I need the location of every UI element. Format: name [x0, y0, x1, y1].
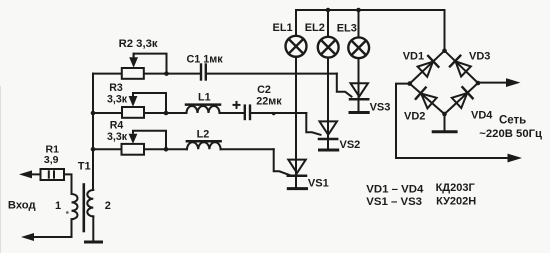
svg-text:L1: L1	[198, 91, 211, 103]
transformer T1 secondary winding	[87, 190, 93, 216]
svg-text:VS3: VS3	[370, 102, 391, 114]
resistor R3	[122, 107, 144, 118]
wire bridge bottom to ground	[444, 114, 446, 131]
svg-text:C1 1мк: C1 1мк	[187, 54, 224, 66]
node bridge right	[476, 81, 481, 86]
svg-text:VS2: VS2	[340, 139, 361, 151]
diode bridge wires	[410, 51, 478, 114]
diode VD2	[416, 88, 437, 109]
svg-text:1: 1	[55, 200, 61, 212]
svg-text:Сеть: Сеть	[499, 115, 526, 127]
node R3 right	[164, 111, 169, 116]
svg-text:R2 3,3к: R2 3,3к	[119, 38, 158, 50]
wire EL3 lead	[358, 10, 360, 38]
wire R3 wiper loop	[133, 93, 166, 113]
inductor L1	[186, 105, 220, 113]
svg-text:VD1: VD1	[403, 51, 424, 63]
node R4 right	[164, 147, 169, 152]
svg-text:EL2: EL2	[305, 22, 325, 34]
svg-text:EL3: EL3	[337, 22, 357, 34]
wire mains bottom (left node loop)	[396, 84, 512, 158]
svg-text:R3: R3	[109, 82, 123, 94]
wire L1 to C2	[220, 112, 245, 114]
wire EL2 to VS2 anode	[327, 58, 329, 140]
capacitor C1	[201, 65, 206, 80]
svg-text:КД203Г: КД203Г	[436, 182, 476, 194]
ground VS1	[288, 187, 306, 190]
inductor L2	[187, 141, 221, 149]
ground VS2	[320, 149, 338, 152]
resistor R2	[122, 68, 144, 79]
wire row3 right to VS1 gate feed	[221, 148, 274, 150]
svg-text:КУ202Н: КУ202Н	[436, 196, 476, 208]
transformer T1 core	[83, 185, 86, 232]
wire left bus	[92, 74, 94, 185]
wire VS1 gate	[274, 149, 290, 175]
svg-text:L2: L2	[197, 128, 210, 140]
lamp EL2	[318, 37, 339, 58]
diode VD1	[417, 56, 438, 77]
resistor R4	[122, 144, 145, 155]
node R2 right	[164, 71, 169, 76]
wire row2 right to VS2 gate feed	[251, 112, 306, 114]
wire EL1 lead	[295, 10, 297, 36]
wire top bus	[296, 10, 445, 51]
thyristor VS2	[319, 121, 337, 148]
wire secondary top	[92, 185, 94, 191]
svg-text:VD3: VD3	[469, 50, 490, 62]
node bridge left	[407, 81, 412, 86]
node junction EL3 top	[356, 8, 361, 13]
diode VD3	[450, 56, 471, 77]
wire mains top (right node to arrow)	[478, 82, 511, 84]
ground bridge	[433, 130, 456, 133]
svg-text:VD4: VD4	[471, 110, 493, 122]
svg-text:3,3к: 3,3к	[107, 131, 128, 143]
svg-text:22мк: 22мк	[256, 96, 282, 108]
svg-text:T1: T1	[78, 161, 91, 173]
svg-text:C2: C2	[257, 84, 271, 96]
wire EL1 to VS1 anode	[295, 57, 297, 176]
thyristor VS1	[288, 160, 306, 188]
node bus row2	[91, 111, 96, 116]
lamp EL1	[286, 36, 307, 57]
ground VS3	[350, 111, 368, 114]
svg-text:Вход: Вход	[8, 200, 36, 212]
thyristor VS3	[350, 83, 368, 111]
node bridge bottom	[442, 112, 447, 117]
node bus row3	[91, 147, 96, 152]
svg-text:VD2: VD2	[404, 110, 425, 122]
wire primary bottom	[71, 219, 73, 237]
svg-text:R4: R4	[110, 119, 124, 131]
wire input bottom arrow	[28, 236, 72, 238]
wire input top arrow	[26, 173, 41, 175]
wire secondary bottom	[92, 216, 94, 241]
svg-text:3,9: 3,9	[44, 154, 59, 166]
wire row1 right to VS3 gate feed	[207, 73, 337, 75]
noise speck near winding 1	[66, 211, 69, 214]
transformer T1 primary winding	[72, 194, 78, 219]
svg-text:~220В 50Гц: ~220В 50Гц	[479, 128, 542, 140]
node bridge top	[442, 48, 447, 53]
svg-text:VD1 – VD4: VD1 – VD4	[366, 184, 424, 196]
ground T1	[86, 241, 102, 244]
node speck on row2 wire	[272, 112, 275, 115]
wire row1 left	[93, 73, 200, 75]
wire EL3 to VS3 anode	[358, 58, 360, 99]
wire row3 left	[93, 148, 187, 150]
lamp EL3	[348, 37, 369, 58]
wire R1 to T1 primary	[64, 174, 72, 194]
capacitor C2 polarized	[234, 102, 251, 119]
node junction EL2 top	[326, 8, 331, 13]
wire row2 left	[93, 112, 187, 114]
wire EL2 lead	[327, 10, 329, 37]
svg-text:VS1 – VS3: VS1 – VS3	[366, 196, 422, 208]
svg-text:EL1: EL1	[273, 22, 293, 34]
svg-text:2: 2	[105, 200, 111, 212]
svg-text:VS1: VS1	[308, 177, 329, 189]
wire VS3 gate	[337, 74, 352, 97]
resistor R1	[41, 169, 65, 180]
svg-text:3,3к: 3,3к	[107, 94, 128, 106]
wire R4 wiper loop	[133, 131, 166, 150]
wire R2 wiper loop	[134, 54, 167, 74]
diode VD4	[451, 87, 472, 108]
wire VS2 gate	[306, 113, 320, 135]
